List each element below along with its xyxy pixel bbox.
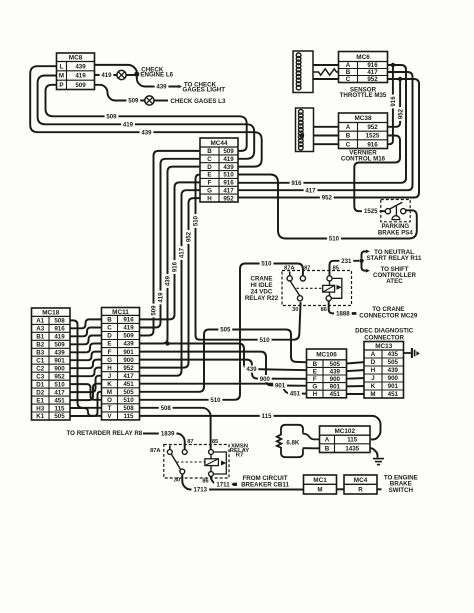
svg-text:G: G — [107, 357, 112, 364]
svg-text:417: 417 — [305, 187, 316, 194]
svg-text:B2: B2 — [36, 342, 44, 349]
svg-text:510: 510 — [54, 381, 65, 388]
svg-text:ATEC: ATEC — [386, 278, 403, 285]
connector MC1 — [304, 475, 337, 494]
label 510 — [209, 396, 223, 404]
svg-text:505: 505 — [220, 327, 231, 334]
svg-text:CHECK GAGES L3: CHECK GAGES L3 — [170, 98, 226, 105]
svg-text:417: 417 — [367, 69, 378, 76]
svg-text:T: T — [108, 405, 112, 412]
svg-text:A1: A1 — [36, 318, 44, 325]
wire 231 crane 85 to junction — [330, 261, 360, 276]
svg-text:C3: C3 — [36, 373, 44, 380]
svg-text:419: 419 — [158, 292, 165, 303]
svg-text:30: 30 — [174, 477, 180, 483]
svg-text:508: 508 — [123, 405, 134, 412]
svg-text:510: 510 — [193, 215, 200, 226]
svg-text:H: H — [313, 391, 318, 398]
svg-text:916: 916 — [291, 180, 302, 187]
wire 901 MC11-F to MC106-G — [137, 352, 308, 386]
label 1713 — [192, 486, 210, 494]
label 952 vertical — [185, 230, 193, 244]
svg-text:J: J — [108, 373, 112, 380]
relay R7 xmsn — [164, 445, 229, 479]
dash 1888 end mark — [352, 312, 357, 315]
svg-text:TO RETARDER RELAY R8: TO RETARDER RELAY R8 — [67, 430, 143, 437]
wire MC18 to MC11-H weave — [69, 368, 104, 377]
svg-text:435: 435 — [388, 351, 399, 358]
svg-text:MC8: MC8 — [69, 55, 83, 62]
wire MC8-L to junction at lamp L6 — [93, 65, 137, 75]
svg-text:30: 30 — [292, 307, 298, 313]
svg-text:O: O — [107, 397, 112, 404]
wire 505 MC11-M to MC106-B — [137, 330, 308, 392]
svg-text:115: 115 — [55, 405, 66, 412]
svg-text:439: 439 — [246, 366, 257, 373]
svg-text:952: 952 — [367, 124, 378, 131]
svg-text:115: 115 — [124, 413, 135, 420]
svg-text:510: 510 — [223, 172, 234, 179]
svg-text:D1: D1 — [36, 381, 44, 388]
label to crane connector MC29 — [359, 306, 418, 319]
svg-text:A: A — [325, 437, 330, 444]
svg-text:87: 87 — [187, 439, 193, 445]
label ddec diagnostic connector — [355, 328, 414, 342]
svg-text:BRAKE PS4: BRAKE PS4 — [378, 230, 413, 237]
sensor throttle M35 potentiometer — [293, 51, 313, 93]
svg-text:115: 115 — [262, 413, 272, 420]
svg-text:A: A — [371, 351, 376, 358]
svg-text:B: B — [346, 69, 351, 76]
connector MC6 — [339, 52, 388, 84]
wire MC6-A to throttle sensor — [301, 64, 340, 66]
svg-text:439: 439 — [54, 350, 65, 357]
svg-text:B: B — [107, 317, 112, 324]
wire MC106 to MC13 — [345, 385, 366, 387]
connector MC106 — [307, 349, 347, 398]
wire MC6-B wiper resistor — [307, 69, 340, 75]
junction MC6-A 916 — [391, 63, 395, 67]
svg-text:CONNECTOR MC29: CONNECTOR MC29 — [359, 312, 418, 319]
svg-text:M: M — [59, 73, 64, 80]
svg-text:952: 952 — [367, 76, 378, 83]
relay R22 crane hi idle — [282, 271, 352, 306]
svg-text:901: 901 — [123, 349, 134, 356]
wire 1888 crane 86 to crane connector — [329, 301, 352, 314]
svg-text:952: 952 — [54, 373, 65, 380]
svg-text:M: M — [317, 486, 322, 493]
svg-text:B: B — [325, 445, 330, 452]
MC13 pin A connector arrow — [402, 348, 420, 358]
ground symbol — [373, 459, 384, 465]
svg-text:419: 419 — [101, 72, 112, 79]
svg-text:E: E — [207, 172, 211, 179]
label 231 — [339, 257, 353, 265]
svg-text:439: 439 — [75, 63, 86, 70]
svg-text:1525: 1525 — [366, 133, 380, 140]
label 900 — [258, 375, 272, 383]
wire lamp L3 to label — [154, 100, 168, 102]
wire MC18 to MC11-C weave — [69, 328, 104, 337]
wire 1713 relay R7 30 to MC1 — [182, 474, 305, 490]
svg-text:J: J — [371, 375, 375, 382]
wire 510 MC18-D1 to MC11-O — [69, 384, 104, 400]
wire 916 branch to MC38-C — [386, 65, 393, 144]
svg-text:439: 439 — [223, 164, 234, 171]
label parking brake PS4 — [378, 223, 413, 237]
svg-text:D2: D2 — [36, 389, 44, 396]
svg-text:509: 509 — [54, 342, 65, 349]
svg-text:916: 916 — [367, 62, 378, 69]
svg-text:R7: R7 — [236, 453, 244, 459]
label 916 — [290, 179, 304, 187]
svg-text:510: 510 — [261, 261, 272, 268]
svg-text:916: 916 — [123, 317, 134, 324]
connector MC38 — [339, 113, 388, 149]
wire 451 MC18-E1 to MC11-K — [69, 384, 104, 400]
connector MC13 ddec diagnostic — [364, 342, 404, 399]
svg-text:MC106: MC106 — [316, 352, 337, 359]
label 115 — [260, 412, 274, 420]
svg-text:MC38: MC38 — [354, 115, 371, 122]
arrow to check gages light — [178, 85, 182, 89]
label 510 — [327, 235, 341, 243]
svg-text:MC6: MC6 — [356, 54, 370, 61]
svg-text:BREAKER CB11: BREAKER CB11 — [241, 482, 289, 489]
svg-text:509: 509 — [223, 148, 234, 155]
wire 510 MC44-E left hook to crane 30 — [196, 175, 301, 340]
label sensor throttle M35 — [340, 86, 387, 99]
wire 417 MC44-G to MC11-J — [137, 190, 202, 376]
label 1888 — [334, 310, 352, 318]
svg-text:C: C — [207, 156, 212, 163]
wire 115 MC11-V to MC102-A — [137, 416, 381, 440]
label crane hi idle relay R22 — [245, 276, 279, 303]
svg-text:87A: 87A — [150, 448, 160, 454]
svg-text:THROTTLE M35: THROTTLE M35 — [340, 92, 387, 99]
wire 509 MC44-B to MC11-D — [137, 151, 202, 336]
label 916 vertical — [171, 260, 179, 274]
svg-text:MC11: MC11 — [112, 309, 129, 316]
wire MC6-C to throttle sensor — [301, 78, 340, 80]
svg-text:439: 439 — [388, 367, 399, 374]
svg-text:900: 900 — [330, 376, 341, 383]
svg-text:A: A — [346, 124, 351, 131]
svg-text:E: E — [313, 368, 317, 375]
wire 439 to check gages light — [137, 76, 178, 87]
arrow to neutral start relay — [366, 250, 370, 254]
svg-text:MC18: MC18 — [42, 310, 59, 317]
wire 505 MC18-K1 to MC11-M — [69, 392, 104, 416]
label 510 — [260, 260, 274, 268]
svg-text:87: 87 — [304, 266, 310, 272]
label to engine brake switch — [384, 474, 418, 494]
label 510 — [258, 336, 272, 344]
svg-text:H: H — [207, 195, 212, 202]
svg-text:900: 900 — [54, 365, 65, 372]
svg-text:C: C — [346, 141, 351, 148]
vernier wiper tap — [299, 133, 304, 138]
svg-text:CONTROL M16: CONTROL M16 — [341, 156, 386, 163]
connector MC102 — [320, 426, 371, 453]
svg-text:D: D — [371, 359, 376, 366]
svg-text:M: M — [107, 389, 112, 396]
svg-text:E1: E1 — [36, 397, 44, 404]
label 1711 — [214, 481, 232, 489]
svg-text:L: L — [60, 63, 64, 70]
svg-text:419: 419 — [75, 73, 86, 80]
svg-text:510: 510 — [329, 236, 340, 243]
wire 419 MC44-C to MC11-C — [137, 159, 202, 328]
wire 417 MC6-B to MC44-G — [236, 72, 413, 190]
wire 916 MC44-F to MC11-B — [137, 182, 202, 319]
connector MC11 — [102, 308, 140, 421]
svg-text:417: 417 — [179, 247, 186, 258]
svg-text:C: C — [346, 76, 351, 83]
svg-text:916: 916 — [172, 261, 179, 272]
svg-text:86: 86 — [202, 479, 208, 485]
connector MC44 — [200, 138, 238, 202]
svg-text:419: 419 — [123, 325, 134, 332]
wire MC18 to MC11-D weave — [69, 336, 104, 345]
svg-text:451: 451 — [388, 391, 399, 398]
label to check gages light — [182, 81, 225, 93]
svg-text:916: 916 — [390, 96, 397, 107]
arrow to shift controller — [366, 269, 370, 273]
svg-text:901: 901 — [275, 383, 286, 390]
wire MC106 to MC13 — [345, 362, 366, 364]
svg-text:A3: A3 — [36, 326, 44, 333]
connector MC4 — [344, 475, 377, 494]
wire MC106 to MC13 — [345, 377, 366, 380]
svg-text:231: 231 — [341, 258, 352, 265]
wire lamp L6 to junction — [126, 74, 137, 76]
svg-text:901: 901 — [388, 383, 399, 390]
svg-text:510: 510 — [260, 337, 271, 344]
svg-text:916: 916 — [223, 180, 234, 187]
svg-text:H3: H3 — [36, 405, 44, 412]
wire 509 to lamp L3 — [93, 85, 145, 101]
svg-text:RELAY R22: RELAY R22 — [245, 295, 279, 302]
svg-text:901: 901 — [54, 357, 65, 364]
svg-text:901: 901 — [330, 384, 341, 391]
svg-text:C1: C1 — [36, 357, 44, 364]
svg-text:509: 509 — [75, 82, 86, 89]
svg-text:A: A — [346, 62, 351, 69]
wire 509 bus from MC8-P to MC44-B — [46, 85, 247, 151]
svg-text:509: 509 — [128, 98, 139, 105]
svg-text:GAGES LIGHT: GAGES LIGHT — [182, 87, 225, 94]
svg-text:B: B — [207, 148, 212, 155]
wire 419 to lamp L6 — [93, 74, 117, 76]
label 916 vertical — [389, 95, 397, 109]
wire 1711 end mark — [233, 483, 237, 486]
label 439 — [155, 83, 169, 91]
wire 510 MC11-O to crane 87 — [137, 264, 303, 400]
svg-text:F: F — [108, 349, 112, 356]
svg-text:P: P — [59, 82, 63, 89]
svg-text:H: H — [107, 365, 112, 372]
svg-text:451: 451 — [290, 391, 301, 398]
wire 916 MC6-A to MC44-F — [236, 65, 406, 183]
svg-text:510: 510 — [210, 397, 221, 404]
svg-text:K: K — [371, 383, 376, 390]
wire 231 branch to shift controller — [362, 263, 367, 271]
svg-text:900: 900 — [388, 375, 399, 382]
wire 952 MC44-H to MC11-H — [137, 198, 202, 368]
label 419 — [121, 121, 135, 129]
svg-text:E: E — [107, 341, 111, 348]
wire 952 MC6-C to MC44-H — [236, 79, 419, 198]
label 1839 — [159, 430, 177, 438]
vernier control M16 coil — [296, 108, 314, 152]
lamp L6 check engine — [117, 70, 126, 79]
label vernier control M16 — [341, 149, 386, 162]
wire MC18 to MC11-F weave — [69, 352, 104, 361]
svg-text:419: 419 — [54, 334, 65, 341]
wire 439 bus from MC8-L to MC44-D — [30, 66, 262, 166]
svg-text:87A: 87A — [284, 266, 294, 272]
label 419 vertical — [157, 291, 165, 305]
svg-text:439: 439 — [156, 84, 167, 91]
svg-text:508: 508 — [161, 405, 172, 412]
wire MC18 to MC11-G weave — [69, 360, 104, 369]
wire 439 junction to MC106-E — [168, 344, 309, 371]
label xmsn relay R7 — [230, 443, 249, 458]
svg-text:952: 952 — [397, 108, 404, 119]
svg-text:508: 508 — [54, 318, 65, 325]
wire MC18 to MC11-E weave — [69, 344, 104, 353]
svg-text:F: F — [208, 180, 212, 187]
wire MC38-A to vernier sensor — [302, 126, 340, 128]
svg-text:439: 439 — [165, 275, 172, 286]
wiper arrow of throttle sensor — [303, 70, 307, 74]
wire 419 bus from MC8-M to MC44-C — [38, 76, 255, 159]
label 451 — [288, 390, 302, 398]
svg-text:M: M — [370, 391, 375, 398]
svg-text:952: 952 — [322, 195, 333, 202]
label 439 vertical — [164, 274, 172, 288]
junction 439 at MC11-E — [165, 341, 169, 345]
svg-text:115: 115 — [347, 437, 358, 444]
label from circuit breaker CB11 — [241, 475, 289, 489]
svg-text:85: 85 — [333, 266, 339, 272]
wire 231 branch to neutral start relay — [362, 251, 367, 258]
svg-text:1711: 1711 — [216, 481, 230, 488]
wire 508 MC11-T to relay R7 85 — [137, 408, 211, 450]
wire MC106 to MC13 — [345, 370, 366, 371]
svg-text:419: 419 — [123, 122, 134, 129]
svg-text:6.8K: 6.8K — [286, 439, 299, 446]
svg-text:C: C — [107, 325, 112, 332]
connector MC18 — [32, 308, 71, 420]
svg-text:B: B — [346, 133, 351, 140]
wire 1711 relay R7 86 stub — [211, 476, 233, 484]
svg-text:F: F — [313, 376, 317, 383]
svg-text:451: 451 — [330, 391, 341, 398]
wire MC38-C to vernier sensor — [302, 143, 340, 145]
svg-text:1888: 1888 — [336, 311, 350, 318]
svg-text:916: 916 — [367, 141, 378, 148]
label check engine L6 — [140, 66, 173, 78]
label 509 — [126, 97, 140, 105]
svg-text:MC1: MC1 — [313, 477, 327, 484]
label 509 — [105, 113, 119, 121]
svg-text:START RELAY R11: START RELAY R11 — [367, 255, 422, 262]
wire MC18 to MC11-B weave — [69, 319, 104, 328]
wire MC106 to MC13 — [345, 393, 366, 395]
parking brake PS4 pressure switch — [381, 200, 410, 222]
wire 417 MC18-D2 to MC11-J — [69, 376, 104, 392]
svg-text:509: 509 — [123, 333, 134, 340]
lamp L3 check gages — [145, 96, 154, 105]
svg-text:D: D — [107, 333, 112, 340]
svg-text:439: 439 — [123, 341, 134, 348]
svg-text:1525: 1525 — [364, 208, 378, 215]
svg-text:1839: 1839 — [161, 431, 175, 438]
wire 1839 to relay R7 87 — [143, 434, 185, 450]
svg-text:439: 439 — [141, 129, 152, 136]
svg-text:86: 86 — [321, 307, 327, 313]
svg-text:MC44: MC44 — [210, 140, 227, 147]
label 1525 — [362, 207, 380, 215]
svg-text:505: 505 — [388, 359, 399, 366]
svg-text:B3: B3 — [36, 350, 44, 357]
wire 451 MC11-K to MC106-H — [137, 384, 308, 394]
label 505 — [218, 326, 232, 334]
svg-text:ENGINE L6: ENGINE L6 — [140, 72, 173, 79]
label 952 vertical — [397, 107, 405, 121]
svg-text:900: 900 — [123, 357, 134, 364]
svg-text:900: 900 — [260, 376, 271, 383]
junction at lamp L6 output — [134, 72, 139, 77]
wire 1435 MC102-B to ground — [369, 448, 378, 458]
svg-text:451: 451 — [54, 397, 65, 404]
svg-text:505: 505 — [330, 361, 341, 368]
label to neutral start relay R11 — [367, 249, 422, 262]
label 439 — [245, 365, 259, 373]
label to shift controller ATEC — [373, 266, 416, 285]
label 508 — [159, 404, 173, 412]
svg-text:451: 451 — [123, 381, 134, 388]
svg-text:1713: 1713 — [194, 487, 208, 494]
svg-text:K1: K1 — [36, 413, 44, 420]
svg-text:MC4: MC4 — [354, 477, 368, 484]
label 417 vertical — [178, 246, 186, 260]
wire 115 MC18-H3 to MC11-V — [69, 408, 104, 416]
svg-text:SWITCH: SWITCH — [389, 487, 414, 494]
label 419 — [100, 71, 114, 79]
wire 510 MC44-E to parking brake — [236, 175, 417, 239]
wire 439 MC44-D to MC11-E — [137, 167, 202, 344]
svg-text:417: 417 — [223, 187, 234, 194]
svg-text:K: K — [107, 381, 112, 388]
svg-text:H: H — [371, 367, 376, 374]
svg-text:C2: C2 — [36, 365, 44, 372]
svg-text:D: D — [207, 164, 212, 171]
svg-text:G: G — [312, 384, 317, 391]
svg-text:509: 509 — [151, 305, 158, 316]
svg-text:MC102: MC102 — [334, 428, 355, 435]
svg-text:952: 952 — [123, 365, 134, 372]
junction 231 branch — [359, 259, 363, 263]
label 509 vertical — [150, 304, 158, 318]
svg-text:CONNECTOR: CONNECTOR — [364, 334, 404, 341]
connector MC8 — [57, 53, 95, 90]
wire 508 MC18-A1 to MC11-T — [69, 320, 104, 407]
svg-text:MC13: MC13 — [375, 343, 392, 350]
label 952 — [320, 194, 334, 202]
